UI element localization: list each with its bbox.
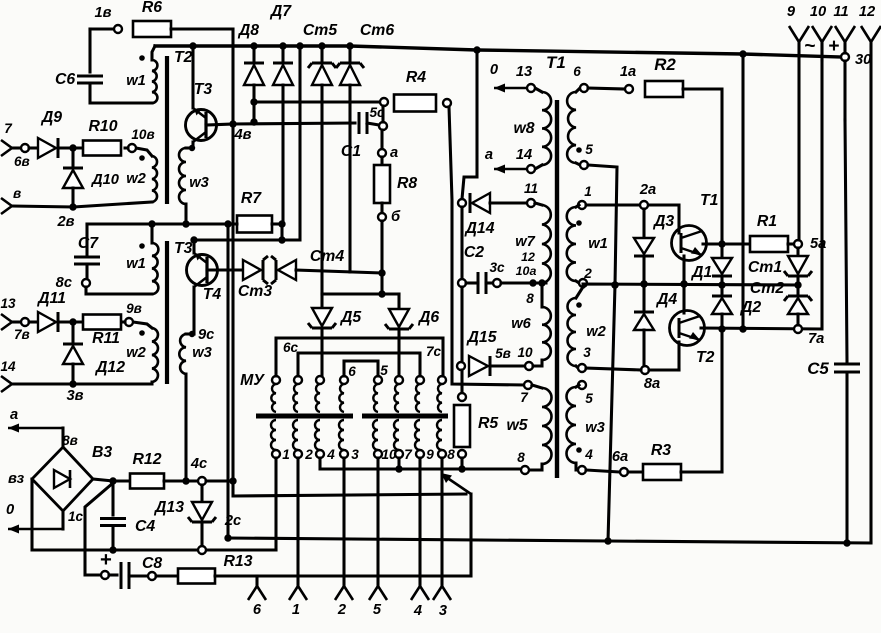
svg-text:w3: w3 <box>192 345 212 361</box>
terminal 3 w2 <box>578 364 586 372</box>
svg-text:Д8: Д8 <box>237 22 259 39</box>
wire b down to D5 box <box>380 221 383 294</box>
wire T2 collector up <box>682 284 685 313</box>
winding w8 <box>542 92 551 165</box>
wire R6 right to vertical <box>171 27 233 30</box>
wire St4 to node b <box>296 270 382 273</box>
wire St6 down to St4 wire <box>348 85 351 272</box>
winding w2 T1 <box>568 298 577 366</box>
terminal 1 w1 <box>578 201 586 209</box>
junction D9/R10/D10 <box>69 144 76 151</box>
svg-text:6: 6 <box>253 602 262 618</box>
wire D15 to w6 bottom 10 <box>490 364 525 367</box>
svg-text:9в: 9в <box>126 301 142 316</box>
wire 9v to w2T3 <box>133 322 152 328</box>
wire 3s to w7 bottom <box>501 281 546 284</box>
wire R4 down to w5 terminal 7 <box>449 107 524 385</box>
polarity dot w3 T1r <box>576 447 582 453</box>
polarity dot w2 T1r <box>576 302 582 308</box>
svg-text:8: 8 <box>526 291 534 306</box>
bridge rectifier V3 <box>32 447 93 511</box>
wire D5-D6 box top <box>322 292 399 295</box>
wire D13 bottom <box>200 522 203 546</box>
svg-text:5: 5 <box>380 363 388 378</box>
svg-text:2в: 2в <box>56 214 74 230</box>
svg-text:9с: 9с <box>198 327 214 343</box>
svg-text:6: 6 <box>573 64 581 79</box>
zener St2 <box>788 298 808 314</box>
wire MU col8 to fork3 <box>440 458 443 586</box>
wire w3 top stub <box>186 146 193 149</box>
capacitor C4 <box>100 519 126 526</box>
svg-text:Д4: Д4 <box>655 291 677 308</box>
diode D12 <box>63 346 83 364</box>
wire D12 top <box>71 322 74 344</box>
svg-text:Т2: Т2 <box>174 49 193 66</box>
svg-text:R3: R3 <box>651 442 671 459</box>
terminal fork 13/7v <box>1 314 12 330</box>
terminal 2s <box>198 546 206 554</box>
svg-text:Д10: Д10 <box>90 172 120 188</box>
wire MU outer bridge 6s-7s <box>276 338 443 376</box>
svg-text:Ст2: Ст2 <box>750 280 784 297</box>
wire to D9 <box>29 146 38 149</box>
junction 7a wire <box>718 325 725 332</box>
wire a to R8 <box>380 157 383 165</box>
wire to D11 <box>29 320 38 323</box>
svg-text:w5: w5 <box>506 417 527 434</box>
winding w5 <box>542 388 552 464</box>
terminal R4 right <box>443 99 451 107</box>
svg-text:Т3: Т3 <box>194 81 213 98</box>
wire w3T3 top stub <box>186 332 194 335</box>
zener D6 <box>389 309 409 327</box>
wire long vertical B / y496 line <box>233 29 466 496</box>
svg-text:4: 4 <box>584 447 593 462</box>
wire to D1 <box>720 240 723 258</box>
junction 9s <box>189 331 195 337</box>
svg-text:11: 11 <box>833 4 848 20</box>
diode D1 <box>712 258 732 274</box>
wire fork6 stub <box>255 576 258 586</box>
wire R5 to y469 <box>460 458 463 469</box>
wire D1-D2 <box>720 276 723 296</box>
wire 1 to 2a to base <box>586 203 675 206</box>
svg-text:w2: w2 <box>126 345 146 361</box>
terminal 5 w4 <box>580 161 588 169</box>
wire R7 node down <box>280 224 283 240</box>
svg-text:13: 13 <box>0 296 16 311</box>
wire w3T3 bottom down to 4s line <box>184 374 187 481</box>
terminal fork 9 <box>789 26 809 42</box>
svg-text:w2: w2 <box>126 171 146 187</box>
terminal 1a <box>625 85 633 93</box>
svg-text:Т1: Т1 <box>546 53 566 72</box>
wire 4s right <box>206 479 233 482</box>
wire fork to D9 <box>12 146 21 149</box>
svg-text:5: 5 <box>585 142 593 157</box>
terminal 2 w1 <box>579 279 587 287</box>
svg-text:С4: С4 <box>135 518 155 535</box>
wire w5 bottom stub <box>529 464 542 470</box>
junction C5 bottom <box>843 539 850 546</box>
svg-text:4: 4 <box>326 447 335 462</box>
svg-text:3: 3 <box>351 447 359 462</box>
wire D5 to MU <box>320 328 323 380</box>
polarity dot w1 T2 <box>139 55 145 61</box>
wire 2a to D3 <box>642 209 645 238</box>
wire MU small bridge 6-5 <box>344 361 378 376</box>
junction R2-line/T1 emitter <box>718 240 725 247</box>
svg-text:Ст1: Ст1 <box>748 259 782 276</box>
diode D15 <box>469 356 488 376</box>
terminal C8 right <box>148 572 156 580</box>
svg-text:w2: w2 <box>586 324 606 340</box>
junction bridge/R12/C4 <box>109 477 116 484</box>
wire w2T3 bottom to 3v <box>73 382 152 384</box>
wire 8a to base <box>649 368 679 371</box>
terminal 3s <box>493 279 501 287</box>
wire rail D14-C2 <box>460 207 463 279</box>
wire to D4 <box>642 284 645 312</box>
wire D8 top <box>252 46 255 63</box>
wire R2 output down <box>683 89 722 240</box>
svg-text:1: 1 <box>584 184 592 199</box>
svg-text:R8: R8 <box>397 175 417 192</box>
svg-text:w3: w3 <box>189 175 209 191</box>
svg-text:Ст5: Ст5 <box>303 22 337 39</box>
wire w2 top link <box>576 287 583 298</box>
resistor R13 <box>178 569 215 584</box>
svg-text:+: + <box>100 549 112 571</box>
wire 4 to 6a <box>586 470 620 472</box>
svg-text:Т2: Т2 <box>696 349 715 366</box>
wire 8s to w1T3 bottom <box>86 287 152 294</box>
wire D8 bottom <box>252 85 255 122</box>
wire w2 bottom stub <box>576 366 578 368</box>
svg-text:Ст4: Ст4 <box>310 248 344 265</box>
junction D7 on rail <box>279 42 286 49</box>
wire T1 collector down <box>682 256 685 284</box>
svg-text:2: 2 <box>337 602 347 618</box>
wire MU col7 stub <box>397 458 400 469</box>
wire D11 to R11 <box>58 320 83 323</box>
wire feedback diagonal with arrow <box>446 477 471 494</box>
wire bridge left to 2s line <box>32 479 276 550</box>
wire R13 output to riser <box>215 494 471 576</box>
MU winding column 8 <box>438 376 446 384</box>
svg-text:11: 11 <box>524 181 538 196</box>
wire arrow a output <box>8 427 63 430</box>
wire C7 bottom <box>85 264 88 279</box>
zener D5 <box>312 308 332 326</box>
wire MU inner bridge <box>298 353 420 376</box>
wire MU col4 / y469 line to w5-8 <box>320 458 526 469</box>
wire T3 emitter to rail <box>191 46 194 108</box>
resistor R2 <box>645 81 683 97</box>
wire 6 to 1a <box>588 88 625 89</box>
winding w3 of T3 <box>179 334 186 374</box>
svg-text:R11: R11 <box>92 330 120 347</box>
winding w1 T1 <box>567 207 576 281</box>
wire R12 to 4s <box>164 479 198 482</box>
junction col7 on y469 <box>395 465 402 472</box>
resistor R6 <box>133 21 171 37</box>
svg-text:а: а <box>10 407 18 423</box>
wire D10 top <box>71 148 74 168</box>
svg-text:7а: 7а <box>808 331 824 347</box>
terminal 2a <box>640 201 648 209</box>
junction A bottom <box>224 534 231 541</box>
terminal fork 5 <box>369 586 387 600</box>
junction 3v <box>69 380 76 387</box>
resistor R11 <box>83 315 121 330</box>
svg-text:8в: 8в <box>62 433 78 448</box>
wire w3 bottom stub <box>184 204 187 224</box>
svg-text:С5: С5 <box>807 359 829 378</box>
wire bridge bottom lead <box>61 511 64 529</box>
diode D7 <box>273 65 293 85</box>
junction D1-D2 mid <box>718 281 725 288</box>
svg-text:10в: 10в <box>131 127 154 142</box>
terminal 7a <box>794 325 802 333</box>
wire R6 left <box>90 27 114 30</box>
resistor R7 <box>237 216 272 233</box>
zener St4 <box>278 260 296 280</box>
wire w1 top stub <box>576 205 579 207</box>
MU core bar left <box>256 414 353 419</box>
junction w3T2 on R7 wire <box>182 220 189 227</box>
terminal 7v circle <box>21 318 29 326</box>
svg-text:1с: 1с <box>68 509 84 524</box>
svg-text:4с: 4с <box>190 456 207 472</box>
terminal b <box>378 213 386 221</box>
svg-text:R1: R1 <box>757 213 777 230</box>
polarity dot w1 T1r <box>576 220 582 226</box>
junction St6 on rail <box>346 42 353 49</box>
capacitor C7 <box>74 257 100 264</box>
wire R11 to 9v <box>122 320 125 323</box>
svg-text:6с: 6с <box>283 340 299 355</box>
svg-text:Д11: Д11 <box>36 290 66 307</box>
junction w1T3 top on wire <box>148 220 155 227</box>
terminal fork 4 <box>411 586 429 600</box>
svg-text:Т1: Т1 <box>700 192 718 209</box>
junction node rail/T1 area <box>473 46 480 53</box>
zener St5 <box>312 65 332 85</box>
svg-text:а: а <box>485 147 493 163</box>
wire fork to 7v circle <box>12 320 21 323</box>
junction D11/R11/D12 <box>69 318 76 325</box>
wire St5 top <box>320 46 323 63</box>
svg-text:6: 6 <box>348 364 356 379</box>
svg-text:9: 9 <box>426 447 434 462</box>
terminal fork 2 <box>335 586 353 600</box>
wire D3 bottom <box>642 256 645 284</box>
junction on collector rail <box>278 236 285 243</box>
svg-text:1в: 1в <box>94 5 111 21</box>
wire C4 bottom lead <box>111 526 114 550</box>
diode D2 <box>712 298 732 314</box>
wire 3 to 8a <box>586 368 641 370</box>
wire D2 down to R3 <box>720 314 723 472</box>
svg-text:10: 10 <box>517 345 533 360</box>
terminal fork 11 <box>835 26 855 42</box>
wire C5 to bottom rail <box>845 372 848 543</box>
svg-text:3: 3 <box>583 345 591 360</box>
svg-text:Д12: Д12 <box>94 359 125 376</box>
wire T3 base right <box>206 124 233 125</box>
svg-text:Д6: Д6 <box>417 309 439 326</box>
resistor R4 <box>394 95 436 112</box>
svg-text:R2: R2 <box>654 55 676 74</box>
svg-text:R4: R4 <box>406 69 426 86</box>
junction T1 collector <box>680 280 687 287</box>
junction y285 center riser <box>611 281 618 288</box>
junction rail right <box>739 50 746 57</box>
terminal R5 bottom <box>458 450 466 458</box>
junction R5 on y469 <box>458 465 465 472</box>
wire D5 top <box>320 294 323 308</box>
terminal D14 left <box>458 199 466 207</box>
terminal 10v <box>128 144 136 152</box>
winding w3 of T2 <box>179 148 186 204</box>
wire St1-St2 <box>796 276 799 296</box>
wire w1 bottom stub <box>576 281 579 283</box>
wire w6 bottom stub <box>533 360 542 366</box>
winding w3 T1 <box>567 387 577 463</box>
wire base to C1 <box>232 123 355 124</box>
svg-text:С2: С2 <box>464 244 484 261</box>
svg-text:5: 5 <box>585 391 593 406</box>
svg-text:Ст6: Ст6 <box>360 22 394 39</box>
MU winding column 5 <box>374 376 382 384</box>
diode D8 <box>244 65 264 85</box>
svg-text:7в: 7в <box>14 327 30 342</box>
wire R8 bottom <box>380 203 383 213</box>
svg-text:2: 2 <box>583 266 592 281</box>
svg-text:а: а <box>390 145 398 161</box>
resistor R12 <box>130 474 164 489</box>
wire arrow a to w8 <box>494 168 527 171</box>
terminal fork 1 <box>289 586 307 600</box>
terminal 6a <box>620 468 628 476</box>
wire MU col9 to fork4 <box>418 458 421 586</box>
wire 14 to 3v node <box>12 382 73 385</box>
svg-text:Д7: Д7 <box>269 3 292 20</box>
wire terminal 9 down to 5a <box>797 42 800 240</box>
wire C2 right stub <box>486 281 493 284</box>
terminal fork 10 <box>812 26 832 42</box>
svg-text:~: ~ <box>804 36 815 57</box>
winding w2 of T3 <box>152 328 158 382</box>
svg-text:Д9: Д9 <box>40 109 62 126</box>
zener D13 <box>192 502 212 520</box>
transistor T4 <box>187 255 218 286</box>
wire arrow 0 output <box>8 528 63 531</box>
wire w1 top corner <box>152 46 155 60</box>
junction D5-D6 box top <box>378 290 385 297</box>
wire St5 down to D5 box <box>320 85 323 294</box>
transistor T2 <box>670 311 705 346</box>
wire D12 bottom <box>71 364 74 384</box>
svg-text:В3: В3 <box>92 444 112 461</box>
junction C4 bottom <box>109 546 116 553</box>
polarity dot w2 T3 <box>139 330 145 336</box>
junction collector riser on rail <box>296 42 303 49</box>
wire top supply rail <box>155 46 841 57</box>
MU winding column 3 <box>316 376 324 384</box>
MU winding column 6 <box>395 376 403 384</box>
terminal 8 w5 <box>521 466 529 474</box>
winding w2 of T2 <box>152 156 157 202</box>
wire bridge right to node <box>93 479 113 481</box>
svg-text:Д1: Д1 <box>690 264 712 281</box>
svg-text:1: 1 <box>282 447 290 462</box>
wire R1 right <box>788 242 794 245</box>
svg-text:3в: 3в <box>66 388 83 404</box>
wire C4 top lead <box>111 481 114 515</box>
wire down to C8 plus <box>85 483 113 575</box>
wire MU col1 to 2s line <box>274 458 277 550</box>
capacitor C2 <box>478 272 486 294</box>
junction R7/D7 <box>278 220 285 227</box>
terminal 4 w3 <box>578 466 586 474</box>
terminal D15 left <box>457 362 465 370</box>
svg-text:12: 12 <box>521 250 535 264</box>
svg-text:Д14: Д14 <box>464 220 495 237</box>
polarity dot w4 <box>576 147 582 153</box>
wire C1 right <box>367 123 379 125</box>
junction 2v <box>69 203 76 210</box>
svg-text:w1: w1 <box>126 73 146 89</box>
wire C6 bottom to w1 <box>90 83 152 103</box>
winding w7 <box>542 205 551 283</box>
wire C2 left stub <box>466 281 478 284</box>
diode D9 <box>38 138 56 158</box>
wire D14 to w7 terminal 11 <box>490 201 527 204</box>
svg-text:С8: С8 <box>142 555 162 572</box>
svg-text:8с: 8с <box>56 275 72 291</box>
zener St1 <box>788 256 808 274</box>
svg-text:6в: 6в <box>14 154 30 169</box>
terminal fork 3 <box>433 586 451 600</box>
svg-text:3с: 3с <box>489 260 505 275</box>
svg-text:8: 8 <box>447 447 455 462</box>
svg-text:2с: 2с <box>224 513 241 529</box>
svg-text:7с: 7с <box>426 344 442 359</box>
svg-text:Т3: Т3 <box>174 240 193 257</box>
resistor R5 <box>454 405 470 447</box>
wire 5a to St1 <box>796 248 799 256</box>
wire long vertical A <box>226 224 229 538</box>
wire rail D15-R5 <box>460 370 463 393</box>
terminal fork 7/6v <box>1 140 12 156</box>
terminal R4 left <box>380 98 388 106</box>
svg-text:5: 5 <box>373 602 382 618</box>
svg-text:Д3: Д3 <box>652 213 674 230</box>
terminal 11 <box>527 199 535 207</box>
svg-text:2а: 2а <box>639 182 656 198</box>
terminal fork v <box>1 198 12 214</box>
svg-text:R12: R12 <box>133 451 162 468</box>
terminal R5 top <box>458 393 466 401</box>
svg-text:4: 4 <box>413 603 422 619</box>
junction b/St4 wire <box>378 269 385 276</box>
wire w7-w6 link <box>540 283 543 307</box>
svg-text:Д5: Д5 <box>339 309 361 326</box>
wire D6 to MU <box>397 329 400 380</box>
